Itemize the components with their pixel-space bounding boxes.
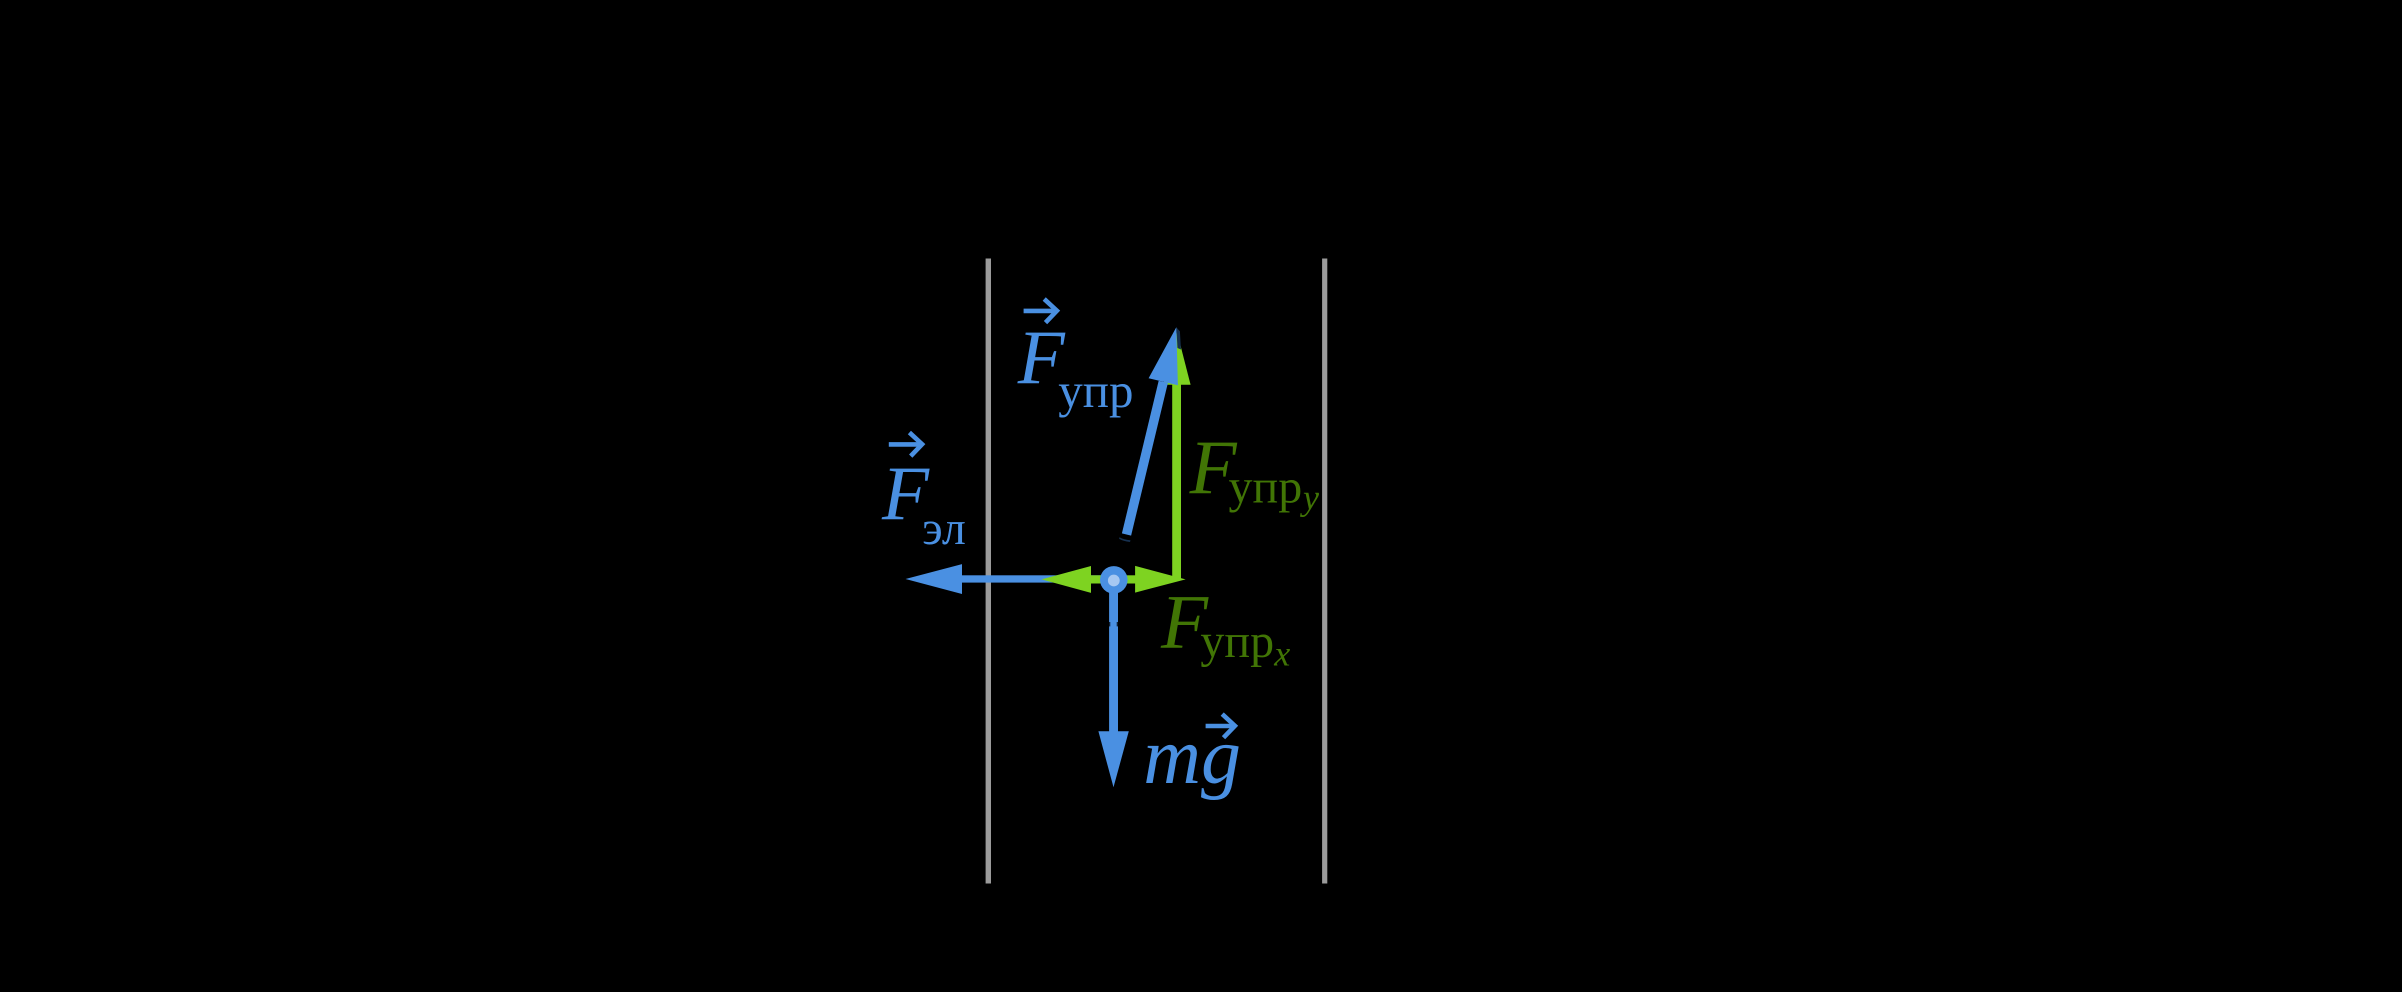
charge dot xyxy=(1100,566,1128,594)
spring force x-component double arrow (green, horizontal) xyxy=(1042,566,1186,593)
label F_upr (blue) xyxy=(1017,315,1134,418)
force F_el arrow (blue, left) xyxy=(906,564,1115,594)
joint notches on mg shaft xyxy=(1109,622,1118,626)
svg-text:упр: упр xyxy=(1200,615,1274,668)
svg-text:упр: упр xyxy=(1058,363,1133,418)
spring force F_upr y-component arrow (green, up) xyxy=(1163,332,1190,580)
vector arrow over g xyxy=(1206,714,1235,738)
svg-text:x: x xyxy=(1273,634,1290,674)
label F_upr_x (dark green) xyxy=(1160,579,1290,674)
dark sliver between blue and green arrowheads xyxy=(1176,327,1181,349)
label F_el (blue) xyxy=(881,451,966,556)
svg-text:эл: эл xyxy=(922,502,966,555)
right capacitor plate xyxy=(1322,259,1327,884)
vector arrow over F_upr xyxy=(1024,299,1057,323)
left capacitor plate xyxy=(986,259,991,884)
weight mg arrow (blue, down) xyxy=(1098,580,1128,787)
label F_upr_y (dark green) xyxy=(1189,424,1319,517)
dark tail dash under F_upr shaft xyxy=(1119,537,1131,542)
svg-text:упр: упр xyxy=(1229,461,1303,514)
spring force F_upr arrow (blue, diagonal up-right) xyxy=(1122,327,1178,535)
label mg (blue) xyxy=(1143,713,1241,801)
svg-text:y: y xyxy=(1300,478,1319,518)
vector arrow over F_el xyxy=(889,433,922,457)
